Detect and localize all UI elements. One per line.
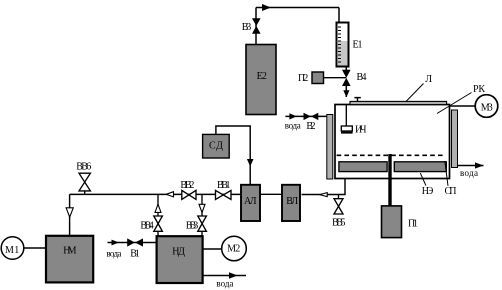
tank E2 (246, 45, 276, 115)
valve B3 (252, 18, 261, 34)
water inlet B1 wire (108, 242, 157, 244)
svg-text:вода: вода (285, 121, 301, 131)
valve VV6 stub (84, 191, 86, 195)
svg-text:НМ: НМ (63, 246, 76, 257)
svg-text:ВВ2: ВВ2 (180, 180, 194, 191)
right cooling strip (452, 110, 458, 168)
pump NM (46, 236, 93, 283)
pump ND (157, 236, 203, 283)
valve VV3 (198, 216, 207, 231)
svg-text:РК: РК (473, 84, 485, 95)
ND outlet wire (203, 275, 246, 277)
svg-text:НЭ: НЭ (422, 186, 434, 197)
svg-text:В1: В1 (130, 249, 140, 260)
svg-text:П2: П2 (298, 73, 308, 84)
valve VV4 (154, 216, 163, 231)
sampler P2 (312, 72, 324, 84)
inlet arrow (289, 113, 296, 119)
wire E2 top to B3 (255, 8, 257, 45)
perforated plate SP dashed (337, 154, 445, 156)
valve VV5 (334, 199, 343, 214)
svg-text:В3: В3 (242, 22, 252, 33)
wire reactor to M3 (450, 105, 476, 107)
svg-text:СП: СП (445, 186, 457, 197)
wire M1 to NM (24, 247, 46, 249)
main line left segment (70, 193, 241, 195)
wire B4 down to reactor lid (345, 86, 347, 97)
apparatus VL (282, 185, 300, 221)
svg-text:ВВ1: ВВ1 (217, 180, 231, 191)
svg-text:ВВ3: ВВ3 (186, 221, 199, 232)
svg-text:вода: вода (216, 278, 233, 288)
leader line for L (406, 84, 424, 102)
valve VV1 (216, 190, 232, 199)
flow triangle up VV4 (155, 204, 161, 212)
wire VV4 branch (157, 194, 159, 236)
drive P1 (382, 206, 402, 238)
valve VV2 (182, 190, 196, 199)
svg-text:В4: В4 (357, 72, 367, 83)
outlet arrow ND (229, 272, 238, 278)
svg-text:Л: Л (425, 74, 432, 85)
stirrer stem (388, 154, 391, 206)
svg-text:В2: В2 (306, 121, 315, 132)
svg-text:вода: вода (460, 168, 478, 178)
wire P2 to B4 (324, 77, 347, 79)
svg-text:ВВ5: ВВ5 (332, 218, 346, 229)
sensor IC plate (341, 132, 353, 134)
leader line NE (420, 173, 426, 185)
outlet arrow (475, 162, 484, 168)
svg-text:М1: М1 (5, 245, 19, 256)
wire IC hanger (345, 105, 347, 126)
wire E1 bottom to valve B4 (345, 67, 347, 71)
check valve to reactor (320, 193, 328, 197)
valve B2 (304, 113, 319, 120)
valve B4 (342, 70, 351, 86)
svg-text:вода: вода (106, 249, 121, 259)
reactor RK vessel (335, 105, 450, 179)
motor M2 circle (222, 236, 247, 261)
sensor IC box (341, 126, 352, 131)
svg-text:М2: М2 (227, 244, 240, 255)
svg-text:ИЧ: ИЧ (355, 124, 367, 135)
svg-text:ВВ6: ВВ6 (76, 162, 91, 173)
svg-text:Е1: Е1 (353, 39, 363, 50)
svg-text:М3: М3 (481, 102, 493, 113)
svg-text:НД: НД (172, 247, 185, 258)
lid L (350, 101, 447, 104)
motor M1 circle (1, 237, 24, 260)
valve B1 (127, 238, 143, 246)
wire top pipe from B3 to E1 (256, 7, 339, 9)
lid fitting (354, 98, 360, 102)
apparatus AL (241, 185, 260, 221)
water outlet wire (458, 165, 484, 167)
check valve on main line (166, 192, 173, 197)
water inlet wire to B2 (285, 115, 326, 117)
svg-text:ВВ4: ВВ4 (140, 221, 153, 232)
heater bar NE right (394, 162, 446, 172)
svg-text:П1: П1 (408, 219, 418, 230)
wire VV3 branch (201, 194, 203, 236)
flow triangle down to NM (66, 208, 73, 217)
arrow on SD line (247, 159, 254, 167)
wire ND to M2 (203, 248, 222, 250)
leader line for RK (437, 93, 472, 114)
motor M3 circle (475, 95, 498, 118)
wire VL to reactor (302, 179, 346, 195)
svg-text:АЛ: АЛ (244, 196, 257, 207)
svg-text:Е2: Е2 (257, 71, 267, 82)
valve VV5 stub (338, 195, 340, 200)
wire AL to VL (260, 193, 282, 195)
arrow on top pipe (262, 4, 271, 11)
arrow into reactor lid (343, 90, 349, 97)
valve VV6 (79, 173, 90, 191)
svg-text:ВЛ: ВЛ (286, 196, 298, 207)
sensor SD box (203, 134, 230, 158)
flow triangle down VV3 (199, 204, 205, 212)
wire SD to AL (216, 126, 250, 184)
E1 liquid (338, 41, 348, 66)
inlet arrow B1 (112, 240, 120, 246)
left cooling strip (327, 115, 333, 180)
svg-text:СД: СД (209, 141, 223, 152)
E1 graduation ticks (338, 27, 341, 62)
leader line SP (445, 161, 448, 186)
heater bar NE left (339, 162, 387, 172)
wire down to NM (69, 194, 71, 235)
wire vertical drop into E1 (338, 8, 340, 24)
burette E1 (337, 23, 349, 67)
